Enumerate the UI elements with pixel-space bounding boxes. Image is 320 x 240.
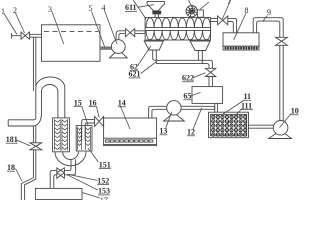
hopper 611 bbox=[147, 2, 165, 18]
valve 2 bbox=[21, 32, 29, 39]
wire drain pipe + valve 152 bbox=[50, 159, 75, 188]
box 17 bbox=[35, 188, 82, 199]
cylinder 151 bbox=[76, 126, 92, 151]
svg-text:16: 16 bbox=[89, 98, 97, 107]
svg-text:65: 65 bbox=[183, 92, 191, 101]
screw helix lower bbox=[146, 30, 211, 39]
svg-text:17: 17 bbox=[100, 196, 108, 200]
pump 4 bbox=[110, 31, 128, 58]
svg-text:10: 10 bbox=[291, 107, 299, 116]
svg-text:7: 7 bbox=[227, 0, 231, 6]
svg-text:4: 4 bbox=[102, 4, 106, 13]
fan motor bbox=[186, 6, 203, 18]
scrubber 11 bbox=[209, 112, 249, 138]
svg-text:151: 151 bbox=[99, 160, 111, 169]
leader lines bbox=[4, 0, 291, 198]
screw conveyor 6 bbox=[145, 18, 211, 41]
scrubber packing circles bbox=[212, 115, 247, 136]
valve 612 (pump to conveyor) bbox=[126, 29, 146, 37]
box 8 bbox=[223, 33, 259, 50]
svg-text:111: 111 bbox=[241, 101, 252, 110]
discharge hopper 62 right bbox=[190, 41, 210, 64]
wire pipe P1 down from inlet junction bbox=[21, 37, 36, 200]
svg-text:15: 15 bbox=[74, 98, 82, 107]
pump 13 bbox=[164, 101, 185, 121]
wire pipe cylinder151 to valve16 bbox=[82, 120, 95, 141]
svg-text:8: 8 bbox=[245, 6, 249, 15]
svg-text:1: 1 bbox=[1, 7, 5, 16]
svg-text:11: 11 bbox=[244, 92, 252, 101]
flue duct bbox=[8, 77, 65, 126]
svg-text:622: 622 bbox=[182, 74, 194, 83]
conveyor outlet + valve 7 bbox=[211, 16, 237, 33]
U-bend connector bbox=[55, 152, 86, 166]
discharge hopper 62 left bbox=[144, 41, 163, 64]
svg-text:181: 181 bbox=[6, 135, 18, 144]
box 14 hatch cells bbox=[105, 140, 152, 142]
svg-text:152: 152 bbox=[97, 176, 109, 185]
wire pipe 9 bbox=[253, 18, 283, 121]
box 8 hatch cells bbox=[225, 47, 258, 49]
wire pipe 12 bbox=[149, 106, 215, 118]
wire collection pipe 621 bbox=[155, 60, 213, 68]
chevron packing cyl15 and cyl151 bbox=[55, 119, 91, 150]
svg-text:153: 153 bbox=[98, 187, 110, 196]
label underlines bbox=[6, 12, 299, 195]
svg-text:13: 13 bbox=[159, 127, 167, 136]
svg-text:5: 5 bbox=[89, 4, 93, 13]
svg-text:12: 12 bbox=[187, 128, 195, 137]
pump 10 bbox=[269, 121, 292, 139]
svg-text:18: 18 bbox=[7, 163, 15, 172]
valve 622 bbox=[205, 68, 215, 86]
wire pipe box65 to scrubber 11 bbox=[215, 103, 218, 112]
screw helix upper bbox=[146, 18, 211, 28]
svg-text:14: 14 bbox=[118, 99, 126, 108]
svg-text:2: 2 bbox=[13, 6, 17, 15]
valve 91 on vertical pipe bbox=[276, 37, 288, 45]
box 65 bbox=[192, 87, 223, 104]
cylinder 15 bbox=[53, 118, 70, 152]
tank 3 bbox=[42, 25, 101, 62]
box 14 bbox=[104, 118, 157, 146]
wire pipe 11 to pump 10 bbox=[249, 125, 274, 128]
wire inlet pipe bbox=[12, 33, 42, 39]
valve 181 bbox=[30, 143, 42, 150]
hatched outlet 5 bbox=[100, 47, 112, 50]
svg-text:9: 9 bbox=[267, 8, 271, 17]
svg-text:3: 3 bbox=[48, 5, 52, 14]
svg-text:611: 611 bbox=[125, 3, 137, 12]
valve 16 bbox=[95, 116, 104, 126]
